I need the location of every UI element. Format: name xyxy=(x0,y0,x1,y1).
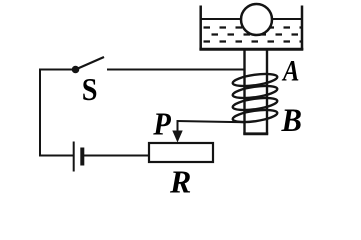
wire: bottom left segment xyxy=(39,155,73,157)
wire: left vertical xyxy=(39,69,41,157)
heater rod right side xyxy=(266,51,268,135)
ball float in liquid xyxy=(241,4,272,35)
vessel right wall xyxy=(301,6,304,51)
wire: slider P to coil terminal B xyxy=(177,121,246,122)
rheostat slider arrowhead P xyxy=(172,131,182,143)
switch S blade xyxy=(76,57,105,70)
wire: battery to rheostat xyxy=(84,155,150,157)
svg-text:P: P xyxy=(152,106,171,142)
svg-text:B: B xyxy=(281,102,302,138)
svg-text:S: S xyxy=(82,73,98,108)
liquid dashes xyxy=(204,28,302,42)
liquid surface line xyxy=(202,18,302,20)
battery negative plate (short thick) xyxy=(80,148,84,166)
vessel bottom xyxy=(199,48,303,51)
battery positive plate (long) xyxy=(73,142,75,172)
wire: top left segment xyxy=(39,69,76,71)
heating coil around rod xyxy=(232,72,278,125)
switch S pivot dot xyxy=(72,66,80,74)
heater rod bottom cap xyxy=(243,132,268,135)
svg-text:A: A xyxy=(281,54,299,87)
svg-text:R: R xyxy=(169,164,191,200)
rheostat R body xyxy=(149,143,213,162)
heater rod left side xyxy=(243,51,245,135)
vessel left wall xyxy=(199,6,202,51)
rheostat slider stem xyxy=(177,121,179,134)
wire: top right segment (switch to coil terminal A) xyxy=(107,69,245,71)
